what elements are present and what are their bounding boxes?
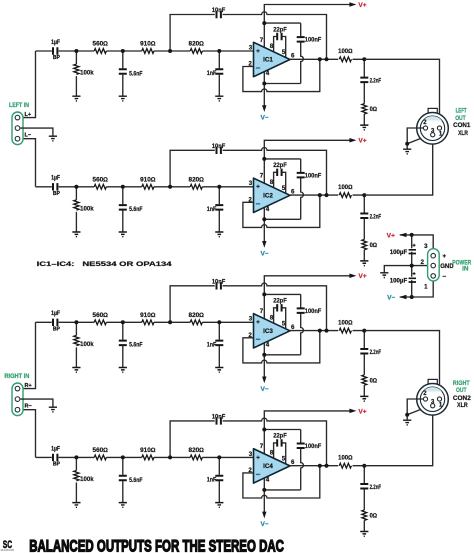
- svg-text:+: +: [442, 253, 446, 260]
- svg-text:RIGHT IN: RIGHT IN: [4, 373, 29, 380]
- svg-text:IN: IN: [462, 265, 469, 272]
- svg-text:BALANCED OUTPUTS FOR THE STERE: BALANCED OUTPUTS FOR THE STEREO DAC: [29, 536, 284, 553]
- svg-text:IC4: IC4: [263, 463, 273, 470]
- svg-text:IC1: IC1: [263, 57, 273, 64]
- svg-text:1: 1: [424, 284, 428, 291]
- svg-text:IC1–IC4: NE5534 OR OPA134: IC1–IC4: NE5534 OR OPA134: [37, 261, 173, 268]
- svg-text:RIGHT: RIGHT: [453, 380, 470, 387]
- svg-text:XLR: XLR: [457, 402, 468, 409]
- svg-text:2: 2: [421, 259, 425, 266]
- svg-text:R−: R−: [25, 404, 32, 410]
- svg-text:SILICON CHIP: SILICON CHIP: [1, 548, 15, 552]
- svg-text:CON2: CON2: [453, 395, 471, 402]
- svg-text:V−: V−: [387, 294, 395, 301]
- svg-text:LEFT IN: LEFT IN: [9, 102, 29, 109]
- svg-text:3: 3: [424, 243, 428, 250]
- svg-text:IC2: IC2: [263, 192, 273, 199]
- svg-text:R+: R+: [25, 383, 32, 389]
- svg-text:L+: L+: [25, 112, 32, 118]
- svg-text:L−: L−: [25, 133, 32, 139]
- svg-text:IC3: IC3: [263, 328, 273, 335]
- svg-text:XLR: XLR: [458, 130, 468, 137]
- svg-text:CON1: CON1: [453, 122, 471, 129]
- svg-text:OUT: OUT: [456, 387, 467, 394]
- svg-text:100µF: 100µF: [390, 249, 408, 256]
- svg-text:V+: V+: [387, 232, 395, 239]
- svg-text:−: −: [442, 273, 446, 280]
- svg-text:LEFT: LEFT: [456, 107, 467, 114]
- svg-text:100µF: 100µF: [390, 277, 408, 284]
